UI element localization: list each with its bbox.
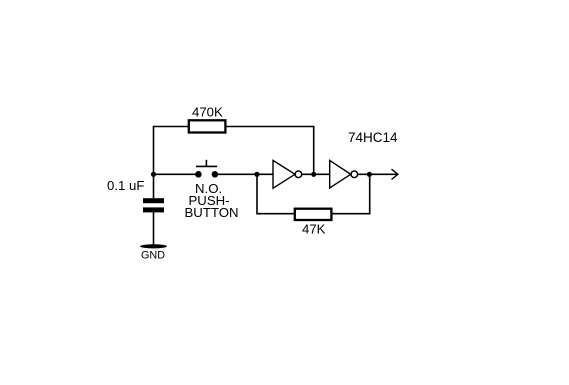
wire capacitor to ground <box>153 212 155 245</box>
value label 470K <box>192 105 223 120</box>
node D junction dot output <box>367 172 372 177</box>
op-amp U1A inverter <box>273 160 302 188</box>
node C junction dot between inverters <box>311 172 316 177</box>
wire node A to pushbutton <box>154 173 197 175</box>
op-amp U1B inverter <box>330 160 358 188</box>
svg-text:470K: 470K <box>192 105 223 120</box>
label GND <box>141 250 165 262</box>
resistor R1 470K <box>189 120 226 132</box>
wire node A to capacitor <box>153 174 155 198</box>
svg-text:BUTTON: BUTTON <box>185 205 239 220</box>
svg-text:47K: 47K <box>302 222 326 237</box>
pushbutton S1 N.O. <box>195 160 218 178</box>
wire U1A output to U1B input <box>302 173 330 175</box>
ground <box>140 244 167 248</box>
wire left rail top to 470K <box>154 127 189 175</box>
label 74HC14 <box>348 130 398 145</box>
value label 0.1 uF <box>107 178 144 193</box>
wire 47K to node D <box>332 174 370 213</box>
wire output with arrow <box>358 169 398 179</box>
resistor R2 47K <box>295 209 332 220</box>
wire 470K to inverter junction <box>226 127 314 175</box>
wire feedback down from node B <box>257 174 294 213</box>
svg-text:0.1 uF: 0.1 uF <box>107 178 144 193</box>
value label 47K <box>302 222 326 237</box>
capacitor C1 0.1uF <box>143 198 164 212</box>
node B junction dot feedback takeoff <box>254 172 259 177</box>
svg-text:GND: GND <box>141 250 165 262</box>
wire pushbutton to inverter U1A input <box>218 173 274 175</box>
label N.O. PUSH-BUTTON <box>185 181 239 220</box>
node A junction dot left rail <box>151 172 156 177</box>
svg-text:74HC14: 74HC14 <box>348 130 398 145</box>
